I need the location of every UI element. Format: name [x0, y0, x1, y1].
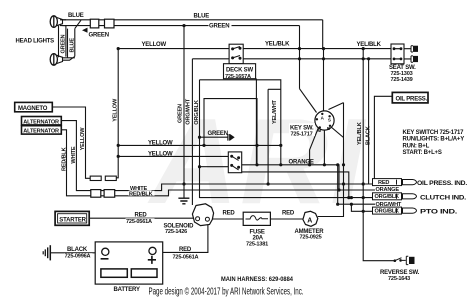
svg-text:RED: RED [135, 213, 148, 219]
connector boxes on headlight wire [90, 19, 114, 28]
wire nested loop rectangle [204, 99, 257, 165]
svg-text:YELLOW: YELLOW [113, 98, 119, 122]
ammeter [303, 211, 318, 226]
wire GREEN top run [60, 26, 300, 89]
oil press sender box [392, 92, 428, 103]
1657A switch box [228, 152, 241, 173]
wire key bottom vertical [323, 131, 325, 165]
svg-text:725-0561A: 725-0561A [126, 219, 152, 225]
svg-text:M: M [318, 128, 322, 133]
svg-text:S: S [328, 118, 331, 123]
label ORANGE row [375, 186, 402, 193]
wire pto row [351, 204, 402, 211]
ground symbol green wire [178, 198, 189, 204]
ground symbol battery [43, 245, 50, 260]
svg-text:725-0925: 725-0925 [300, 235, 322, 241]
wire white row [101, 184, 402, 191]
svg-text:GREEN: GREEN [209, 24, 229, 30]
battery box [95, 242, 163, 284]
svg-text:ORANGE: ORANGE [376, 187, 400, 193]
svg-text:HEAD LIGHTS: HEAD LIGHTS [16, 39, 55, 45]
wire yel/blk vertical right [363, 49, 394, 261]
svg-text:YEL/BLK: YEL/BLK [357, 122, 363, 145]
seat switch connector terminals [411, 46, 418, 63]
wire yellow2 horizontal [118, 155, 228, 157]
svg-text:YEL/BLK: YEL/BLK [357, 42, 382, 48]
headlight lamp 2 [50, 54, 62, 66]
pto ind plug [373, 207, 402, 214]
watermark ARI [147, 93, 366, 229]
wire starter to solenoid [89, 217, 195, 219]
key switch circle [315, 111, 334, 133]
reverse switch [394, 256, 415, 264]
svg-text:725-0561A: 725-0561A [173, 254, 199, 260]
svg-text:KEY SWITCH 725-1717: KEY SWITCH 725-1717 [403, 130, 465, 136]
label RED/BLK [129, 191, 155, 198]
clutch ind plug [373, 193, 402, 200]
svg-text:MAGNETO: MAGNETO [18, 106, 48, 112]
alternator box 1 [22, 117, 62, 126]
wire second upper line to seat switch [192, 59, 391, 205]
starter box [55, 211, 89, 225]
svg-text:GREEN: GREEN [61, 34, 67, 53]
wire seat switch stubs [404, 49, 411, 59]
svg-text:PTO IND.: PTO IND. [420, 210, 458, 216]
svg-text:BLACK: BLACK [365, 126, 371, 145]
svg-text:BLUE: BLUE [70, 38, 76, 53]
svg-text:BLACK: BLACK [67, 247, 88, 253]
svg-text:CLUTCH IND.: CLUTCH IND. [420, 195, 467, 201]
wire black vertical right [368, 59, 370, 184]
svg-text:START: B+L+S: START: B+L+S [403, 150, 442, 156]
seat switch box [391, 44, 404, 64]
svg-text:GREEN: GREEN [89, 33, 109, 39]
svg-text:YELLOW: YELLOW [142, 42, 167, 48]
deck switch label box [224, 64, 257, 165]
plug divider ticks [396, 180, 398, 214]
wire alternator white [61, 121, 91, 191]
green arrow marker top left [82, 28, 88, 33]
svg-text:YELLOW: YELLOW [148, 141, 173, 147]
wire from 1657A box bottom [232, 172, 349, 198]
svg-text:RED: RED [223, 210, 236, 216]
indicator row plugs and bullets [373, 179, 417, 215]
label 725-0996A [64, 253, 93, 260]
svg-text:GREEN: GREEN [178, 104, 184, 123]
wire battery plus [156, 222, 208, 252]
wire solenoid fuse ammeter [213, 218, 303, 220]
square connector pair on white/redblk wires [91, 190, 115, 198]
wire key switch top vertical [323, 49, 325, 111]
svg-text:BLUE: BLUE [68, 13, 84, 19]
wire magneto yellow [52, 107, 90, 178]
svg-text:RUN: B+L: RUN: B+L [403, 144, 430, 150]
flat connector pair on magneto/yellow wires [90, 176, 116, 180]
svg-text:ORG/WHT: ORG/WHT [186, 98, 192, 124]
svg-text:ORG/BLK: ORG/BLK [194, 100, 200, 125]
svg-text:725-1643: 725-1643 [388, 276, 410, 282]
wire key S pin to B vertical [318, 103, 344, 217]
svg-text:ORG/BLK: ORG/BLK [375, 209, 400, 215]
wire BLUE top run [60, 20, 323, 49]
deck switch box [229, 44, 243, 64]
svg-text:RED/BLK: RED/BLK [62, 147, 68, 171]
svg-text:YEL/WHT: YEL/WHT [272, 99, 278, 124]
svg-text:GREEN: GREEN [208, 131, 228, 137]
svg-text:YELLOW: YELLOW [80, 127, 86, 151]
fuse box [243, 212, 270, 225]
svg-text:725-1303: 725-1303 [391, 71, 413, 77]
svg-text:Page design © 2004-2017 by ARI: Page design © 2004-2017 by ARI Network S… [149, 287, 304, 298]
wire blue pair between headlights [63, 20, 82, 60]
label WHITE [130, 186, 152, 193]
svg-text:RED: RED [179, 247, 192, 253]
svg-text:WHITE: WHITE [71, 146, 77, 163]
svg-text:ORANGE: ORANGE [289, 160, 314, 166]
svg-text:725-1426: 725-1426 [165, 229, 187, 235]
label GREEN top mid [209, 22, 232, 30]
wire YELLOW / YEL-BLK upper [118, 48, 391, 50]
wire green pair between headlights [59, 20, 67, 57]
label ORG/WHT row [375, 202, 402, 209]
label KEY SWITCH info block [403, 130, 465, 156]
svg-text:ALTERNATOR: ALTERNATOR [23, 129, 59, 135]
wire red/blk row [101, 190, 402, 196]
svg-text:MAIN HARNESS: 629-0884: MAIN HARNESS: 629-0884 [221, 277, 294, 283]
wire green vertical to ground [183, 26, 185, 198]
svg-text:725-1717: 725-1717 [291, 131, 313, 137]
solenoid [192, 204, 213, 226]
svg-text:RED/BLK: RED/BLK [129, 191, 153, 197]
svg-text:RED: RED [378, 180, 389, 186]
svg-text:ALTERNATOR: ALTERNATOR [23, 119, 59, 125]
svg-text:A: A [307, 217, 312, 224]
svg-text:RED: RED [282, 211, 295, 217]
label 725-0561A starter [126, 218, 155, 225]
svg-text:BLUE: BLUE [194, 14, 210, 20]
wire orange horizontal [242, 165, 339, 190]
green arrow terminal middle [198, 134, 235, 141]
wire org/blk vertical [200, 80, 403, 198]
svg-text:BATTERY: BATTERY [114, 287, 140, 293]
alternator box 2 [22, 126, 62, 135]
svg-text:725-1381: 725-1381 [246, 241, 268, 247]
svg-text:725-0996A: 725-0996A [65, 254, 91, 260]
wire yel/wht loop [200, 80, 281, 184]
svg-text:725-1657A: 725-1657A [225, 74, 251, 80]
headlight lamp 1 [50, 16, 62, 28]
oil press ind plug [373, 179, 402, 186]
magneto box [15, 102, 53, 112]
svg-text:725-1439: 725-1439 [391, 77, 413, 83]
wire key B pin diagonal [331, 127, 344, 138]
svg-text:DECK SW: DECK SW [226, 68, 253, 74]
label KEY SW [289, 123, 315, 137]
wire yellow1 horizontal [118, 144, 281, 146]
svg-text:YELLOW: YELLOW [148, 151, 173, 157]
wire oil press sender [374, 96, 392, 184]
wire diagonal into key switch [300, 89, 317, 113]
wire yellow vertical left [116, 49, 118, 178]
svg-text:YEL/BLK: YEL/BLK [265, 42, 290, 48]
label 725-0561A battery [172, 254, 201, 261]
wire key M pin diagonal down [310, 128, 319, 165]
svg-text:ORG/WHT: ORG/WHT [376, 202, 402, 208]
svg-text:ORG/BLK: ORG/BLK [375, 194, 400, 200]
wire org/wht row [338, 165, 402, 204]
svg-text:STARTER: STARTER [59, 218, 86, 224]
wire to 1657A lower pole [200, 166, 229, 168]
wire alternator red/blk [61, 130, 91, 196]
svg-text:REVERSE SW.: REVERSE SW. [380, 270, 420, 276]
svg-text:OIL PRESS. IND.: OIL PRESS. IND. [417, 181, 468, 187]
wire battery minus [50, 252, 102, 254]
svg-text:OIL PRESS.: OIL PRESS. [396, 96, 428, 102]
svg-text:RUN/LIGHTS: B+L/A+Y: RUN/LIGHTS: B+L/A+Y [403, 137, 465, 143]
